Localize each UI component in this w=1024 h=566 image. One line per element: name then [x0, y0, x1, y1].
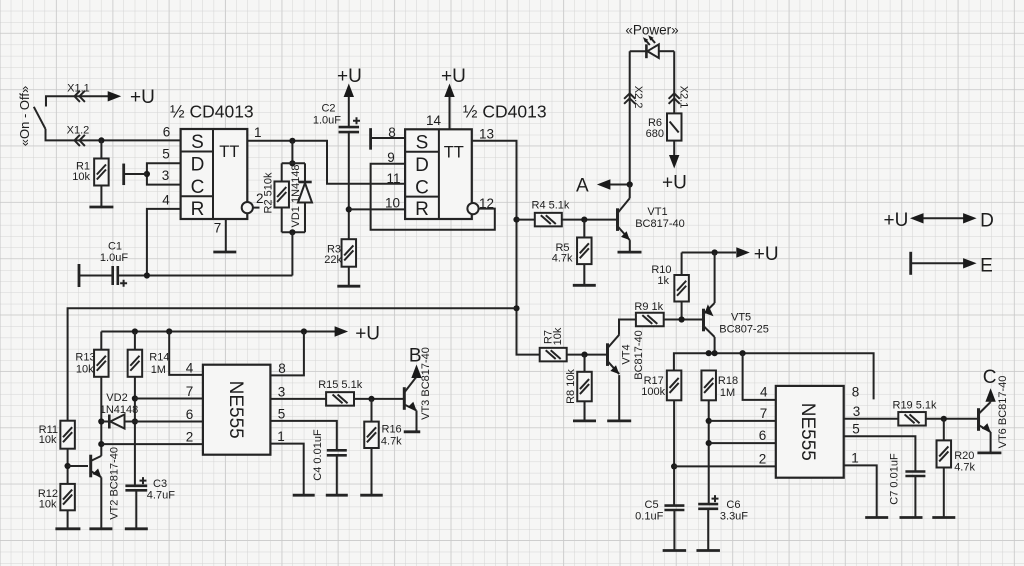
wire R18 bottom to C6: [708, 400, 710, 504]
svg-text:5: 5: [162, 147, 170, 162]
wire pin 13 output down to R7: [472, 141, 540, 355]
svg-text:A: A: [576, 176, 589, 197]
wire VT1 collector: [629, 185, 631, 199]
transistor VT3 BC817-40: [404, 377, 416, 411]
wire pin 3: [270, 398, 326, 400]
junction R10/R9: [679, 316, 685, 322]
transistor VT2 BC817-40: [91, 455, 102, 478]
svg-text:C2: C2: [321, 103, 335, 115]
resistor R18: [701, 371, 716, 401]
junction pin 4 drop: [740, 350, 746, 356]
wire bracket stub: [124, 173, 147, 175]
wire R2 bottom: [281, 208, 283, 233]
diode VD1 1N4148: [298, 163, 312, 232]
wire R14 bottom to C3: [134, 377, 136, 486]
resistor R16: [364, 422, 379, 448]
junction pin 6 node: [706, 440, 712, 446]
svg-text:R14: R14: [149, 352, 169, 364]
ground R3: [337, 285, 360, 288]
svg-text:6: 6: [163, 125, 171, 140]
wire R15 to VT3 base: [354, 398, 403, 400]
wire VT3 collector: [416, 376, 418, 379]
terminal bar D/C input: [122, 164, 125, 186]
svg-text:C4 0.01uF: C4 0.01uF: [312, 429, 324, 481]
connector X2.1: [669, 93, 680, 103]
ground VT2 emitter: [89, 527, 112, 530]
svg-text:NE555: NE555: [225, 381, 246, 439]
terminal bar S input: [369, 128, 372, 150]
wire pin 1 to ground: [844, 465, 877, 517]
svg-text:10k: 10k: [76, 364, 94, 376]
arrow to +U: [108, 91, 122, 101]
svg-text:X2.1: X2.1: [677, 86, 689, 109]
svg-text:C7 0.01uF: C7 0.01uF: [888, 453, 900, 505]
svg-text:4.7k: 4.7k: [381, 436, 402, 448]
svg-text:R20: R20: [954, 450, 974, 462]
svg-text:14: 14: [426, 113, 442, 128]
wire pin 5 to C7: [844, 436, 916, 471]
svg-text:13: 13: [479, 127, 494, 142]
svg-text:D: D: [980, 211, 994, 232]
resistor R15: [326, 392, 354, 406]
wire R7 to VT4 base: [567, 354, 607, 356]
svg-text:VT1: VT1: [647, 206, 667, 218]
arrow to +U: [669, 155, 679, 169]
svg-text:VT6 BC817-40: VT6 BC817-40: [997, 376, 1009, 449]
resistor R14: [128, 350, 142, 377]
svg-text:0.1uF: 0.1uF: [635, 511, 663, 523]
svg-text:VT5: VT5: [731, 312, 751, 324]
svg-text:2: 2: [759, 451, 767, 466]
capacitor C2 1.0uF: [339, 117, 360, 132]
svg-text:+U: +U: [884, 210, 909, 231]
wire VT5 emitter up: [714, 253, 716, 304]
arrow node A: [597, 179, 611, 189]
junction R4 tap: [513, 217, 519, 223]
ground R16: [360, 494, 383, 497]
svg-text:5: 5: [852, 421, 860, 436]
svg-text:6: 6: [759, 428, 767, 443]
svg-text:C1: C1: [108, 241, 122, 253]
wire VT4 collector to R9: [619, 320, 636, 335]
wire VT2 collector: [100, 444, 102, 456]
junction R16 tap: [368, 396, 374, 402]
wire C6 bottom: [707, 509, 709, 551]
svg-text:R8 10k: R8 10k: [565, 369, 577, 404]
svg-text:8: 8: [852, 384, 860, 399]
resistor R11: [60, 421, 75, 449]
wire pin13 node to R11: [68, 308, 517, 420]
wire R8 bottom: [584, 401, 586, 421]
svg-text:R19 5.1k: R19 5.1k: [893, 400, 938, 412]
resistor R3: [342, 239, 357, 267]
wire pin 1 to ground: [270, 444, 303, 496]
svg-text:1M: 1M: [720, 387, 735, 399]
resistor R1: [94, 159, 109, 186]
capacitor C6 3.3uF: [698, 495, 718, 509]
svg-text:+U: +U: [662, 173, 687, 194]
svg-text:½ CD4013: ½ CD4013: [170, 102, 254, 122]
svg-text:R16: R16: [382, 424, 402, 436]
wire pin 9 feedback to pin 12: [371, 164, 495, 230]
ground VT6 emitter: [977, 451, 1001, 454]
svg-text:10k: 10k: [39, 499, 57, 511]
wire pin 10: [349, 208, 405, 210]
wire R3 bottom: [348, 267, 350, 287]
svg-text:4.7k: 4.7k: [954, 462, 975, 474]
svg-text:10k: 10k: [39, 434, 57, 446]
svg-text:X1.1: X1.1: [67, 83, 90, 95]
junction VT5 emitter: [712, 249, 718, 255]
svg-text:VD1 1N4148: VD1 1N4148: [290, 165, 302, 228]
ground R20: [932, 516, 955, 519]
wire E link: [911, 262, 968, 264]
ground R8: [573, 419, 596, 422]
arrow node B: [411, 365, 421, 379]
wire R16 top: [371, 399, 373, 422]
svg-text:R: R: [415, 199, 429, 220]
svg-text:22k: 22k: [324, 254, 342, 266]
wire R12 bottom: [67, 510, 69, 529]
resistor R19: [898, 412, 926, 426]
svg-text:VD2: VD2: [106, 392, 127, 404]
transistor VT6 BC817-40: [979, 402, 991, 432]
resistor R13: [94, 350, 109, 377]
svg-text:4.7k: 4.7k: [552, 253, 573, 265]
junction A / VT1 collector: [627, 181, 633, 187]
wire pin 4: [743, 353, 776, 400]
svg-text:R10: R10: [651, 264, 671, 276]
ground VT1 emitter: [618, 251, 642, 254]
junction R2/VD1 bottom: [289, 229, 295, 235]
wire R5 top: [583, 220, 585, 238]
wire R1 top: [100, 140, 102, 158]
transistor VT5 BC807-25: [704, 303, 715, 337]
svg-text:4.7uF: 4.7uF: [147, 490, 175, 502]
ground R12: [55, 527, 80, 530]
svg-text:11: 11: [386, 171, 400, 186]
wire pin 2: [101, 443, 203, 445]
junction pin 2 node: [671, 463, 677, 469]
svg-text:8: 8: [278, 361, 286, 376]
capacitor C1 1.0uF: [113, 266, 127, 287]
svg-text:BC817-40: BC817-40: [633, 330, 645, 380]
wire +U rail NE555 left: [101, 331, 335, 333]
svg-text:X1.2: X1.2: [67, 125, 90, 137]
resistor R17: [667, 371, 682, 401]
junction R14 top: [132, 328, 138, 334]
wire pin 6: [709, 442, 776, 444]
capacitor C5 0.1uF: [664, 506, 684, 510]
svg-text:+U: +U: [754, 244, 779, 265]
arrow +U C2: [344, 84, 354, 98]
wire pin 6 left segment: [101, 421, 109, 423]
svg-text:R18: R18: [718, 375, 738, 387]
svg-text:+U: +U: [130, 87, 155, 108]
wire pin 4: [169, 332, 203, 375]
wire pins 5-3 bracket: [147, 163, 181, 184]
svg-text:+U: +U: [355, 324, 380, 345]
svg-text:VT3 BC817-40: VT3 BC817-40: [420, 347, 432, 420]
wire pin 1 to pin 11: [247, 141, 405, 184]
wire R13 top: [100, 332, 102, 350]
svg-text:1: 1: [851, 450, 859, 465]
terminal bar C1 left: [78, 264, 81, 287]
ground pin 1: [865, 516, 888, 519]
ground VT4 emitter: [607, 419, 631, 422]
svg-text:D: D: [415, 155, 429, 176]
timer U4 NE555 body: [776, 386, 844, 478]
resistor R4: [535, 213, 562, 227]
wire +U rail NE555 right: [674, 353, 874, 399]
junction VT2 base: [65, 463, 71, 469]
junction pin 2 node: [98, 441, 104, 447]
svg-text:C5: C5: [645, 499, 659, 511]
svg-text:7: 7: [186, 384, 194, 399]
svg-text:3: 3: [162, 168, 170, 183]
capacitor C3 4.7uF: [125, 477, 147, 490]
wire C5 bottom: [673, 510, 675, 551]
junction R20 tap: [941, 416, 947, 422]
junction R11 tap: [513, 305, 519, 311]
junction R5 tap: [581, 217, 587, 223]
svg-text:BC817-40: BC817-40: [635, 218, 685, 230]
svg-text:680: 680: [646, 128, 664, 140]
svg-text:«On - Off»: «On - Off»: [17, 86, 32, 146]
wire R11-R12: [67, 449, 69, 484]
arrow +U pin 14: [444, 84, 454, 98]
svg-text:6: 6: [186, 407, 194, 422]
timer U3 NE555 body: [203, 365, 271, 455]
resistor R5: [577, 238, 592, 265]
svg-text:½ CD4013: ½ CD4013: [463, 102, 547, 122]
svg-text:S: S: [191, 132, 204, 153]
svg-text:R2 510k: R2 510k: [262, 172, 274, 213]
svg-text:4: 4: [760, 385, 768, 400]
ground C4: [326, 494, 348, 497]
wire pin 3: [844, 418, 899, 420]
svg-text:1M: 1M: [151, 364, 166, 376]
svg-text:VT4: VT4: [621, 344, 633, 364]
svg-text:10k: 10k: [72, 171, 90, 183]
wire C2 top: [348, 97, 350, 128]
wire pin 5 to C4: [270, 421, 336, 450]
wire LED cathode down: [629, 51, 631, 184]
arrow node E: [963, 258, 977, 268]
capacitor C7 0.01uF: [905, 472, 925, 477]
resistor R6: [667, 113, 682, 140]
capacitor C4 0.01uF: [327, 450, 347, 455]
wire C4 bottom: [336, 455, 338, 495]
svg-text:NE555: NE555: [797, 403, 818, 461]
ground C5: [663, 549, 687, 552]
svg-text:C6: C6: [726, 499, 740, 511]
junction pin 6 node: [132, 418, 138, 424]
wire pin 8: [371, 137, 406, 139]
svg-text:C3: C3: [153, 478, 167, 490]
svg-text:R4 5.1k: R4 5.1k: [532, 200, 570, 212]
svg-text:R9 1k: R9 1k: [634, 301, 663, 313]
wire X1.2 to pin 6: [46, 129, 181, 140]
wire pin 4 to reset node: [147, 209, 181, 276]
connector X2.2: [624, 93, 635, 103]
wire VT6 collector: [990, 398, 992, 403]
junction R8 tap: [581, 352, 587, 358]
svg-text:1: 1: [277, 429, 285, 444]
svg-text:5: 5: [278, 407, 286, 422]
arrow node D: [963, 213, 977, 223]
wire to R4: [517, 219, 535, 221]
junction VT5 collector: [712, 350, 718, 356]
wire VT2 emitter: [100, 477, 102, 529]
wire R1 bottom: [100, 186, 102, 208]
junction pin 7 node: [706, 418, 712, 424]
svg-text:4: 4: [186, 361, 194, 376]
junction pin 6 node: [98, 418, 104, 424]
junction pin 8 rise: [301, 328, 307, 334]
flip-flop U2 ½ CD4013 body: [405, 129, 472, 220]
connector X1.1: [75, 91, 85, 102]
resistor R9: [636, 313, 664, 327]
junction R18 top: [706, 350, 712, 356]
resistor R12: [60, 484, 75, 510]
svg-text:1N4148: 1N4148: [100, 404, 139, 416]
wire R5 bottom: [583, 264, 585, 285]
svg-text:TT: TT: [444, 143, 464, 161]
junction bracket: [144, 171, 150, 177]
ground C6: [696, 549, 720, 552]
arrow to +U: [736, 247, 750, 257]
svg-text:R: R: [191, 199, 205, 220]
svg-text:4: 4: [162, 193, 170, 208]
svg-text:C: C: [983, 367, 997, 388]
transistor VT4 BC817-40: [608, 335, 620, 374]
svg-text:10k: 10k: [552, 327, 564, 345]
wire VT3 emitter: [416, 411, 418, 432]
wire X1.1: [46, 96, 109, 106]
switch SA1 lever: [34, 107, 46, 129]
resistor R10: [674, 275, 689, 302]
transistor VT1 BC817-40: [618, 198, 630, 240]
svg-text:R13: R13: [75, 352, 95, 364]
wire R10 top: [681, 253, 683, 276]
svg-text:7: 7: [760, 406, 768, 421]
svg-text:+U: +U: [441, 66, 466, 87]
wire R17 bottom to C5: [673, 400, 675, 505]
svg-text:3: 3: [853, 404, 861, 419]
wire node A: [610, 184, 630, 186]
arrow node C: [985, 388, 995, 402]
svg-text:«Power»: «Power»: [625, 23, 678, 38]
wire pin 6: [125, 421, 203, 423]
resistor R20: [937, 440, 952, 467]
junction R2/VD1 top: [289, 160, 295, 166]
wire R4 to VT1 base: [562, 219, 617, 221]
resistor R2: [274, 182, 289, 208]
svg-text:C: C: [191, 177, 205, 198]
diode VD2 1N4148: [109, 415, 124, 429]
svg-text:1k: 1k: [657, 275, 669, 287]
junction pin 7 node: [132, 395, 138, 401]
wire LED anode to R6: [673, 51, 675, 113]
svg-text:100k: 100k: [641, 386, 665, 398]
ground R5: [573, 284, 596, 287]
svg-text:2: 2: [186, 429, 194, 444]
wire pin 14: [449, 97, 451, 130]
wire pin 2: [674, 465, 776, 467]
wire pin 8: [270, 332, 304, 376]
svg-text:1: 1: [254, 125, 262, 140]
wire +U rail VT5: [682, 252, 736, 254]
svg-text:3.3uF: 3.3uF: [720, 511, 748, 523]
junction pin 10 tap: [346, 206, 352, 212]
wire R2 top: [281, 163, 283, 181]
svg-text:S: S: [416, 132, 429, 153]
ground VT3 emitter: [404, 430, 421, 433]
wire R2-VD1 top link: [282, 162, 305, 164]
wire D link: [919, 217, 968, 219]
junction pin4/C1: [144, 272, 150, 278]
wire R9 to VT5 base: [664, 319, 703, 321]
svg-text:D: D: [191, 155, 205, 176]
wire to VT2 base: [68, 465, 88, 467]
terminal bar E: [909, 252, 912, 275]
svg-text:X2.2: X2.2: [632, 86, 644, 109]
wire R6 bottom: [673, 141, 675, 155]
wire R2-VD1 bottom link: [282, 231, 305, 233]
wire VT4 emitter: [618, 375, 620, 421]
svg-text:1.0uF: 1.0uF: [100, 252, 128, 264]
svg-text:VT2 BC817-40: VT2 BC817-40: [108, 447, 120, 520]
LED HL1: [630, 35, 675, 58]
arrow to +U: [335, 326, 349, 336]
svg-text:TT: TT: [219, 143, 239, 161]
wire VT1 emitter: [629, 240, 631, 252]
wire VT5 collector down: [714, 337, 716, 353]
svg-text:3: 3: [278, 385, 286, 400]
resistor R7: [540, 348, 567, 362]
wire R10 bottom: [681, 302, 683, 320]
wire R13 bottom to VT2 collector: [100, 377, 102, 444]
wire C1 left: [79, 275, 113, 277]
wire R20 bottom: [943, 468, 945, 518]
svg-text:1.0uF: 1.0uF: [313, 115, 341, 127]
wire pin 7: [135, 398, 203, 400]
svg-text:C: C: [415, 178, 429, 199]
resistor R8: [577, 372, 592, 402]
wire down to reset node: [291, 232, 293, 275]
wire VT6 emitter: [990, 432, 992, 453]
wire R19 to VT6 base: [926, 418, 977, 420]
connector X1.2: [75, 135, 85, 146]
arrow to +U left: [910, 213, 924, 223]
wire pin 2 stub: [253, 207, 260, 209]
wire R14 top: [134, 332, 136, 350]
wire C2 bottom to R3: [348, 132, 350, 239]
junction pin 4 drop: [166, 328, 172, 334]
svg-text:7: 7: [214, 221, 222, 236]
ground R1: [89, 206, 113, 209]
ground C3: [125, 527, 148, 530]
flip-flop U1 ½ CD4013 body: [181, 129, 248, 220]
inverted output bubble pin 12: [467, 203, 478, 214]
wire C7 bottom: [914, 476, 916, 518]
svg-text:10: 10: [385, 196, 400, 211]
ground pin 7: [213, 251, 236, 254]
wire pin 7: [225, 219, 227, 252]
wire reset node: [118, 275, 293, 277]
ground pin 1: [293, 494, 315, 497]
